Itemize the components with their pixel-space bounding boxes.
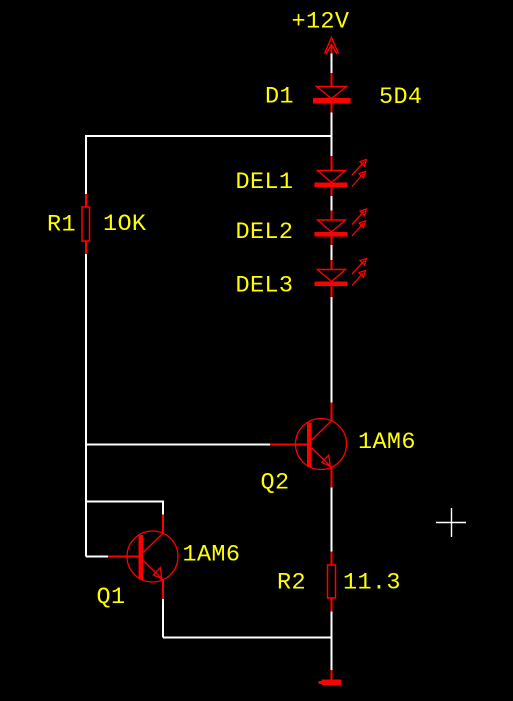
svg-text:R1: R1 — [47, 212, 76, 239]
svg-text:DEL1: DEL1 — [236, 169, 294, 196]
svg-text:11.3: 11.3 — [343, 569, 401, 596]
svg-text:Q2: Q2 — [261, 469, 290, 496]
svg-text:1AM6: 1AM6 — [183, 541, 241, 568]
svg-text:DEL2: DEL2 — [236, 219, 294, 246]
svg-text:5D4: 5D4 — [379, 84, 422, 111]
svg-text:DEL3: DEL3 — [236, 273, 294, 300]
svg-text:R2: R2 — [277, 569, 306, 596]
svg-text:+12V: +12V — [292, 9, 350, 36]
svg-text:1AM6: 1AM6 — [358, 429, 416, 456]
svg-text:D1: D1 — [265, 84, 294, 111]
svg-text:Q1: Q1 — [97, 584, 126, 611]
svg-text:1OK: 1OK — [103, 211, 147, 238]
